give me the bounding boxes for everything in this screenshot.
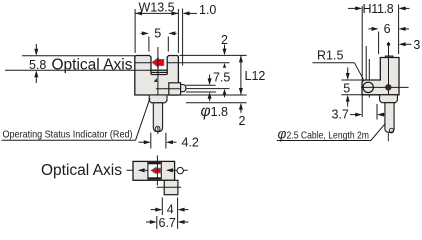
2 top dim up arrowhead <box>223 63 226 68</box>
svg-text:6.7: 6.7 <box>159 216 176 230</box>
cable bushing (front) <box>149 95 167 103</box>
H11.8 dim left arrow <box>348 6 362 10</box>
pin silhouette bottom line <box>186 91 216 93</box>
5.8 dim down arrow <box>34 44 38 56</box>
6.7 dim left arrow <box>146 220 157 224</box>
5 dim left arrow <box>141 31 149 35</box>
connector nub <box>181 85 186 92</box>
4 dim left arrow <box>151 208 163 212</box>
cable bushing (side) <box>380 95 398 103</box>
4 dim right arrow <box>178 208 189 212</box>
4.2 left extension line <box>150 133 152 149</box>
svg-text:3: 3 <box>413 38 420 52</box>
optical axis line extended left <box>5 69 151 71</box>
cable (front) <box>153 103 162 132</box>
6.7 dim right arrow <box>178 220 189 224</box>
3.7 dim left-pointing arrow <box>377 113 391 117</box>
cable (side) <box>385 103 394 133</box>
W13.5 right extension line <box>177 9 179 53</box>
sensor body front outline <box>135 56 179 96</box>
red emitter arrow (front view) <box>152 58 164 67</box>
6 dim right arrow <box>399 27 409 31</box>
LED indicator pointer triangle <box>154 78 157 82</box>
1.0 lip extension line <box>182 9 184 66</box>
7.5 dim up arrow to pin center <box>223 89 227 98</box>
svg-text:5: 5 <box>343 82 350 96</box>
4/6.7 shared right extension line <box>177 198 179 229</box>
bottom view vertical center line <box>156 155 158 185</box>
3.7 right extension line <box>376 104 378 120</box>
connector block inside body <box>169 83 181 95</box>
cable end core ellipse (side) <box>389 128 393 133</box>
body top right extension line <box>179 54 246 56</box>
svg-text:1.0: 1.0 <box>199 3 216 17</box>
pin center line <box>186 88 229 90</box>
H11.8 left construction line <box>361 6 363 117</box>
H11.8 dim right arrow <box>399 6 410 10</box>
bushing bottom extension line <box>186 102 247 104</box>
bottom view horizontal center line <box>127 169 188 171</box>
pin silhouette top line <box>186 84 215 86</box>
slit bar 2 <box>151 71 168 73</box>
cable cross-section dot <box>385 84 391 90</box>
5 dim up arrow (side) <box>346 95 350 107</box>
svg-text:2: 2 <box>221 33 228 47</box>
6.7 dim left extension line <box>156 216 158 229</box>
cable label underline <box>277 140 371 142</box>
svg-text:Operating Status Indicator (Re: Operating Status Indicator (Red) <box>3 129 133 141</box>
side view body outline <box>362 58 399 95</box>
svg-text:L12: L12 <box>245 69 266 83</box>
svg-text:2: 2 <box>239 114 246 128</box>
W13.5 dimension line with arrows <box>135 11 178 15</box>
top tab on side body <box>385 56 392 57</box>
svg-text:W13.5: W13.5 <box>139 1 175 15</box>
indicator leader line <box>136 98 151 140</box>
R1.5 leader underline <box>313 62 355 64</box>
4 dim left extension line <box>161 198 163 216</box>
svg-text:4.2: 4.2 <box>182 136 199 150</box>
5 slot right extension line <box>167 37 169 52</box>
bottom view bushing rect <box>164 180 178 194</box>
4.2 dim right arrow <box>166 140 177 144</box>
svg-text:H11.8: H11.8 <box>363 2 394 16</box>
svg-text:5: 5 <box>154 27 161 41</box>
svg-text:Optical Axis: Optical Axis <box>52 56 133 73</box>
5 dim down arrow (side) <box>346 68 350 81</box>
phi1.8 lower arrow <box>208 92 212 101</box>
slot bottom black bar <box>148 177 160 180</box>
bottom view body rect <box>133 161 175 180</box>
5 slot left extension line <box>148 37 150 52</box>
cable label leader <box>371 123 386 140</box>
svg-text:Optical Axis: Optical Axis <box>41 162 122 179</box>
hole extension line right <box>368 59 370 98</box>
right optical axis arrowhead <box>166 168 175 172</box>
optical axis center line (vertical) <box>157 47 159 95</box>
4.2 dim left arrow <box>139 140 151 144</box>
svg-text:φ1.8: φ1.8 <box>201 103 229 120</box>
foot top extension line <box>341 79 362 81</box>
L12 dimension line with arrows <box>239 55 243 95</box>
right tab inner line joining step extension <box>167 62 229 64</box>
mounting hole circle <box>363 82 373 92</box>
5.8 dim up arrow <box>34 70 38 83</box>
svg-text:4: 4 <box>167 203 174 217</box>
slot left wall line <box>147 161 149 180</box>
svg-text:5.8: 5.8 <box>29 58 46 72</box>
bushing cross line <box>157 186 182 188</box>
4.2 right extension line <box>165 133 167 149</box>
slit bar 1 <box>151 69 168 71</box>
label underline <box>2 139 136 141</box>
3.7 dim right-pointing arrow <box>350 113 362 117</box>
top reference line (body top extended left) <box>22 55 135 57</box>
W13.5 left extension line <box>134 9 136 53</box>
6 left extension line <box>378 32 380 55</box>
slot interior white <box>148 162 161 180</box>
connector center line through body <box>156 88 181 90</box>
svg-text:φ: φ <box>278 126 287 141</box>
3 dim dot arrowhead on cable center <box>387 43 390 46</box>
cable end core ellipse <box>155 126 160 132</box>
5 dim right arrow <box>168 31 176 35</box>
horizontal center line through side body <box>361 86 409 88</box>
body bottom extension line (side) <box>341 94 362 96</box>
1.0 dimension arrow <box>183 11 197 15</box>
left optical axis arrowhead <box>138 168 148 172</box>
svg-text:3.7: 3.7 <box>332 107 349 121</box>
body bottom extension line <box>179 94 247 96</box>
side body right extension line <box>398 5 400 55</box>
svg-text:7.5: 7.5 <box>213 71 230 85</box>
cable center line tick below cable <box>157 127 159 134</box>
left tab inner line <box>135 62 151 64</box>
cable center tick below cable (side) <box>387 133 389 142</box>
hole extension line left <box>365 46 367 96</box>
svg-text:6: 6 <box>384 22 391 36</box>
2 top dim down arrow <box>223 45 227 56</box>
2 bottom dim up arrow <box>239 103 243 113</box>
boss circle right of bottom view body <box>177 167 183 173</box>
slot right wall line <box>160 161 162 180</box>
svg-text:R1.5: R1.5 <box>317 49 343 63</box>
svg-text:2.5 Cable, Length 2m: 2.5 Cable, Length 2m <box>287 129 370 141</box>
R1.5 leader diagonal <box>355 63 364 80</box>
phi1.8 upper arrow <box>208 74 212 85</box>
3 dim arrow <box>399 42 412 46</box>
slot top black bar <box>148 162 160 164</box>
6 dim left arrow <box>369 27 379 31</box>
cable center vertical line <box>388 42 390 96</box>
red emitter arrow (bottom view) <box>151 168 161 174</box>
